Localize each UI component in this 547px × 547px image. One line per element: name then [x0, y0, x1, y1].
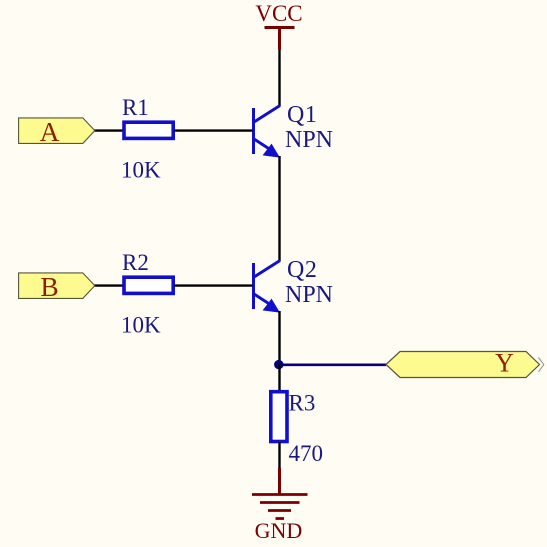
ground bar 3	[268, 509, 291, 512]
resistor R1 body	[124, 122, 173, 138]
transistor Q2 emitter stroke	[254, 294, 273, 306]
ground bar 4	[276, 517, 285, 520]
wire Q2 emitter to junction	[278, 311, 280, 365]
transistor Q1 emitter stroke	[254, 139, 273, 151]
svg-text:R3: R3	[289, 391, 316, 416]
wire junction to R3	[278, 364, 280, 392]
wire junction to Y port (net Y)	[279, 363, 386, 366]
svg-text:R2: R2	[122, 250, 149, 275]
svg-text:Q1: Q1	[287, 102, 318, 128]
power VCC symbol bar	[265, 26, 295, 29]
ground stem	[278, 468, 281, 494]
svg-text:470: 470	[289, 441, 324, 466]
wire R2 to Q2 base	[175, 284, 253, 286]
wire R3 to GND	[278, 442, 280, 469]
transistor Q1 collector stroke	[254, 106, 280, 123]
svg-text:Y: Y	[495, 349, 514, 378]
port Y right chevron	[539, 358, 544, 372]
port Y	[386, 352, 540, 378]
svg-text:NPN: NPN	[285, 282, 333, 308]
svg-text:R1: R1	[122, 95, 149, 120]
port B	[19, 273, 95, 299]
resistor R3 body	[271, 392, 287, 442]
power VCC symbol stem	[278, 28, 281, 50]
transistor Q2 emitter arrowhead	[264, 300, 280, 313]
wire A port to R1	[94, 129, 123, 131]
svg-text:A: A	[40, 116, 60, 147]
port A	[19, 118, 95, 143]
svg-text:NPN: NPN	[285, 127, 333, 153]
junction node dot	[274, 360, 283, 369]
ground bar 2	[260, 501, 300, 504]
svg-text:Q2: Q2	[287, 257, 318, 283]
wire R1 to Q1 base	[175, 129, 253, 131]
svg-text:10K: 10K	[121, 158, 161, 183]
transistor Q1 base bar	[252, 108, 255, 154]
wire B port to R2	[94, 284, 123, 286]
resistor R2 body	[124, 277, 173, 293]
svg-text:VCC: VCC	[255, 1, 302, 26]
transistor Q1 emitter arrowhead	[264, 145, 280, 158]
wire Q1 emitter to Q2 collector	[278, 156, 280, 261]
wire VCC to Q1 collector	[278, 50, 280, 107]
svg-text:B: B	[40, 271, 58, 302]
transistor Q2 base bar	[252, 263, 255, 309]
ground bar 1	[252, 493, 308, 496]
svg-text:GND: GND	[255, 518, 303, 543]
transistor Q2 collector stroke	[254, 261, 280, 278]
svg-text:10K: 10K	[121, 313, 161, 338]
